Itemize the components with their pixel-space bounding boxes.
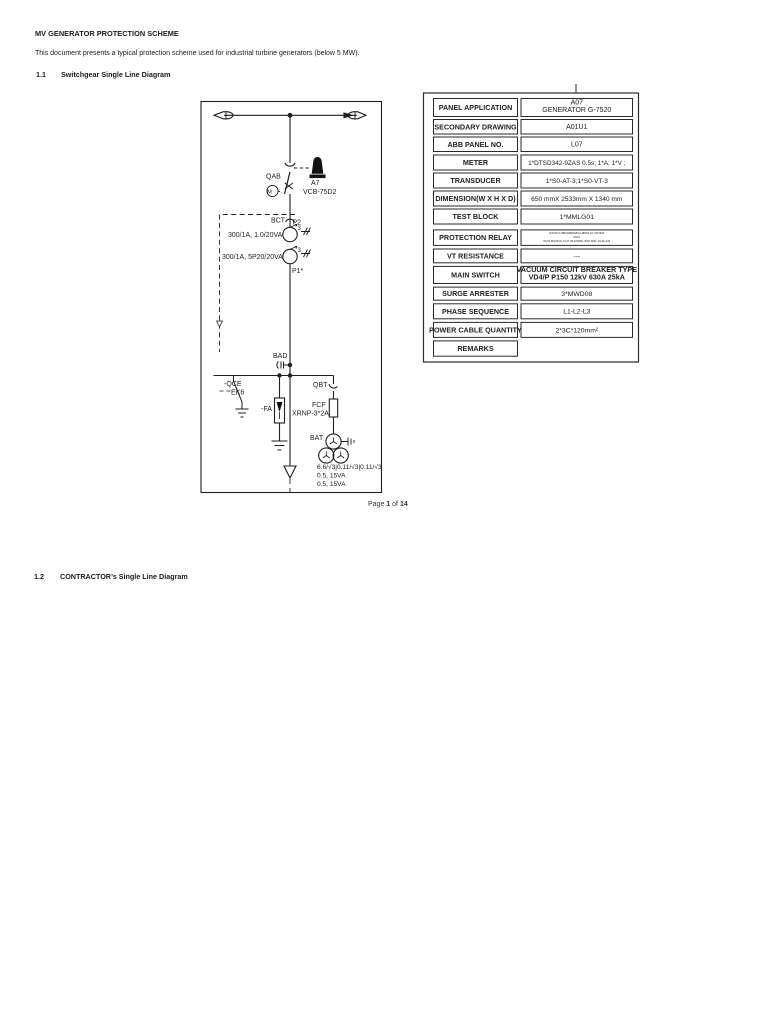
CT 2: [283, 249, 297, 263]
svg-text:PHASE SEQUENCE: PHASE SEQUENCE: [442, 307, 509, 316]
P2 terminal arc: [286, 219, 295, 222]
fuse FCF: [329, 399, 337, 417]
svg-text:EK6: EK6: [231, 390, 244, 397]
svg-text:BAT: BAT: [310, 435, 324, 442]
breaker QAB switch blade: [285, 172, 291, 194]
CT dashed boundary: [220, 215, 296, 353]
VT earth tail: [341, 438, 354, 446]
wire: dashed link to interlock bell: [294, 167, 309, 169]
interlock bell A7: [312, 157, 324, 174]
intro paragraph: [35, 50, 360, 57]
svg-text:2*3C*120mm²: 2*3C*120mm²: [555, 327, 598, 334]
svg-text:1*DTSD342-9ZAS 0.5s; 1*A; 1*V: 1*DTSD342-9ZAS 0.5s; 1*A; 1*V ;: [528, 160, 626, 167]
busbar: [224, 114, 357, 116]
CT 2 secondary marks: [301, 250, 311, 258]
svg-text:VT RESISTANCE: VT RESISTANCE: [447, 252, 504, 261]
svg-text:6.6/√3|0.11/√3|0.11/√3: 6.6/√3|0.11/√3|0.11/√3: [317, 463, 382, 471]
svg-text:SURGE ARRESTER: SURGE ARRESTER: [442, 289, 510, 298]
ground for QCE: [236, 409, 249, 417]
diagram frame: [201, 102, 382, 493]
table row: METER: [434, 155, 518, 170]
labels for SLD: [222, 174, 382, 489]
svg-text:A07: A07: [571, 99, 584, 106]
ground for FA: [272, 441, 288, 450]
svg-text:L1-L2-L3: L1-L2-L3: [563, 309, 590, 316]
svg-text:3: 3: [298, 248, 302, 254]
wire: horizontal rail: [214, 375, 334, 377]
page number: [368, 501, 408, 508]
svg-text:FCF: FCF: [312, 402, 326, 409]
svg-text:A01U1: A01U1: [566, 124, 588, 131]
svg-text:3*MWD08: 3*MWD08: [561, 291, 592, 298]
voltage transformer BAT: [326, 434, 341, 449]
svg-text:50,51,50G/51G,74,27,25,32R/81U: 50,51,50G/51G,74,27,25,32R/81U,81O,60FL,…: [543, 239, 610, 243]
svg-text:XRNP-3*2A: XRNP-3*2A: [292, 411, 329, 418]
svg-text:ABB PANEL NO.: ABB PANEL NO.: [447, 140, 503, 149]
CT 1 secondary marks: [301, 228, 311, 236]
svg-text:650 mmX 2533mm X 1340 mm: 650 mmX 2533mm X 1340 mm: [531, 196, 623, 203]
svg-text:ANSI:: ANSI:: [573, 235, 580, 239]
svg-text:A7: A7: [311, 180, 320, 187]
svg-text:0.5, 15VA: 0.5, 15VA: [317, 481, 346, 488]
wire: breaker to CT: [289, 194, 291, 227]
motor M circle: [267, 185, 278, 196]
table row: PHASE SEQUENCE: [434, 304, 518, 319]
svg-text:BAD: BAD: [273, 353, 287, 360]
svg-text:0.5, 15VA: 0.5, 15VA: [317, 473, 346, 480]
table row: MAIN SWITCH: [434, 266, 518, 283]
svg-text:METER: METER: [463, 158, 489, 167]
table row: TRANSDUCER: [434, 173, 518, 188]
svg-text:GENERATOR G-7520: GENERATOR G-7520: [542, 107, 611, 114]
heading 1.1: [36, 70, 170, 79]
svg-text:QBT: QBT: [313, 382, 328, 389]
svg-text:QAB: QAB: [266, 174, 281, 181]
node: bus tap junction: [288, 113, 293, 118]
svg-text:SECONDARY DRAWING: SECONDARY DRAWING: [434, 122, 517, 131]
svg-text:---: ---: [573, 253, 580, 260]
table row: VT RESISTANCE: [434, 249, 518, 263]
svg-text:MAIN SWITCH: MAIN SWITCH: [451, 271, 500, 280]
svg-text:PANEL APPLICATION: PANEL APPLICATION: [439, 103, 513, 112]
earthing switch QCE: [234, 376, 243, 410]
table row: POWER CABLE QUANTITY: [434, 322, 518, 337]
CT 1: [283, 227, 297, 241]
surge arrester FA: [279, 376, 281, 399]
table row: SECONDARY DRAWING: [434, 120, 518, 135]
svg-text:RX615 5 MBGGBE5A8GC18N81 SJ; R: RX615 5 MBGGBE5A8GC18N81 SJ; RX0602: [549, 231, 604, 235]
svg-text:TEST BLOCK: TEST BLOCK: [453, 212, 500, 221]
table row: REMARKS: [434, 341, 518, 356]
svg-text:POWER CABLE QUANTITY: POWER CABLE QUANTITY: [429, 326, 522, 335]
table row: SURGE ARRESTER: [434, 287, 518, 300]
svg-text:P1*: P1*: [292, 268, 304, 275]
wire: bus to breaker: [289, 115, 291, 163]
svg-text:300/1A, 5P20/20VA: 300/1A, 5P20/20VA: [222, 254, 283, 261]
svg-text:VD4/P P150 12kV 630A 25kA: VD4/P P150 12kV 630A 25kA: [529, 272, 625, 281]
svg-text:1*MMLG01: 1*MMLG01: [560, 214, 595, 221]
svg-text:3: 3: [298, 226, 302, 232]
table row: ABB PANEL NO.: [434, 137, 518, 152]
bus continuation arrow left: [214, 111, 233, 120]
svg-text:PROTECTION RELAY: PROTECTION RELAY: [439, 233, 512, 242]
arrow on dashed boundary: [217, 321, 223, 327]
fuse switch QBT: [333, 376, 335, 385]
svg-text:-QCE: -QCE: [224, 381, 242, 388]
table row: PANEL APPLICATION: [434, 99, 518, 117]
bus continuation arrow right: [344, 111, 366, 120]
table row: PROTECTION RELAY: [434, 230, 518, 246]
table row: DIMENSION(W X H X D): [434, 191, 518, 206]
table row: TEST BLOCK: [434, 209, 518, 224]
svg-text:VCB-75D2: VCB-75D2: [303, 189, 337, 196]
svg-text:BCT: BCT: [271, 218, 286, 225]
breaker QAB upper contact: [285, 163, 295, 166]
svg-text:-FA: -FA: [261, 406, 272, 413]
svg-text:REMARKS: REMARKS: [457, 344, 494, 353]
svg-text:L07: L07: [571, 142, 583, 149]
voltage detector BAD: [281, 362, 290, 369]
svg-text:TRANSDUCER: TRANSDUCER: [450, 176, 501, 185]
wire: CT to BAD tap: [289, 264, 291, 376]
svg-text:DIMENSION(W X H X D): DIMENSION(W X H X D): [435, 194, 516, 203]
svg-text:300/1A, 1.0/20VA: 300/1A, 1.0/20VA: [228, 232, 283, 239]
cable head arrow: [289, 376, 291, 467]
svg-text:M: M: [267, 190, 272, 196]
document title: [35, 29, 179, 38]
heading 1.2: [34, 572, 188, 581]
svg-text:1*S0-AT-3;1*S0-VT-3: 1*S0-AT-3;1*S0-VT-3: [546, 178, 609, 185]
